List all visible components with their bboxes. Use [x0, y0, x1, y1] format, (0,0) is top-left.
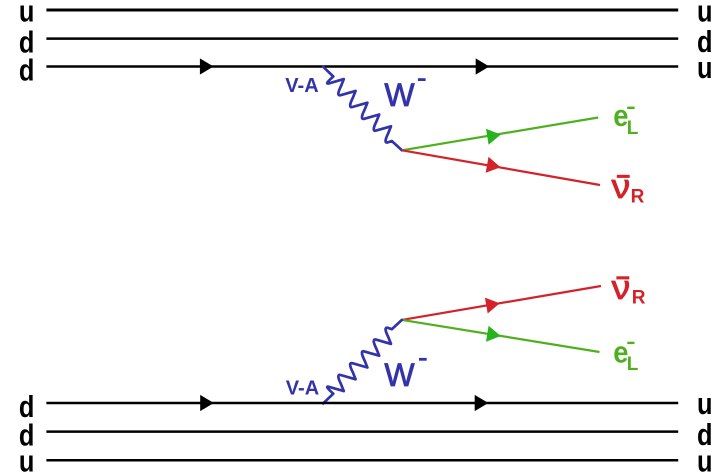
svg-text:V-A: V-A	[285, 75, 318, 97]
quark line u (bottom spectator 3)	[46, 459, 678, 462]
label u right top row1	[697, 0, 713, 29]
label u right bottom row1	[697, 387, 713, 422]
svg-text:u: u	[697, 444, 713, 475]
electron line (bottom, green)	[402, 320, 600, 352]
label d left top row3	[19, 53, 35, 88]
svg-text:V-A: V-A	[286, 377, 319, 399]
svg-text:W: W	[384, 77, 415, 113]
antineutrino line (top, red)	[402, 150, 600, 185]
superscript minus of W (bottom)	[419, 358, 427, 361]
arrow on top quark line (left)	[200, 58, 214, 74]
arrow on bottom quark line (left)	[200, 395, 214, 411]
arrow on bottom quark line (right)	[475, 395, 489, 411]
label d left top row2	[19, 25, 35, 60]
W boson wavy line (top)	[323, 67, 402, 151]
arrow on bottom antineutrino line	[485, 298, 500, 314]
label u right bottom row3	[697, 444, 713, 475]
svg-text:ν: ν	[612, 168, 631, 206]
quark line d (top spectator 2)	[46, 37, 678, 40]
svg-text:L: L	[627, 354, 639, 375]
svg-text:ν: ν	[612, 269, 631, 307]
arrow on top electron line	[486, 129, 501, 145]
superscript minus of e (bottom)	[627, 342, 634, 344]
label d right top row2	[697, 25, 713, 60]
svg-text:u: u	[697, 50, 713, 85]
label W (bottom)	[384, 357, 415, 393]
arrow on top antineutrino line	[486, 157, 501, 173]
arrow on top quark line (right)	[476, 58, 490, 74]
label nu (bottom)	[612, 269, 631, 307]
label nu (top)	[612, 168, 631, 206]
label u right top row3	[697, 50, 713, 85]
svg-text:d: d	[19, 53, 35, 88]
antineutrino line (bottom, red)	[402, 286, 601, 320]
label W (top)	[384, 77, 415, 113]
W boson wavy line (bottom)	[323, 320, 402, 404]
overbar of nu (bottom)	[616, 276, 629, 279]
label e (top)	[613, 99, 628, 133]
label d right bottom row2	[697, 418, 713, 453]
quark line u (top spectator 1)	[46, 9, 678, 12]
label e (bottom)	[613, 336, 628, 370]
quark line d to u (top, decaying quark)	[46, 65, 678, 68]
electron line (top, green)	[402, 118, 598, 151]
arrow on bottom electron line	[486, 326, 501, 342]
quark line d (bottom spectator 2)	[46, 430, 678, 433]
svg-text:L: L	[627, 118, 639, 139]
overbar of nu (top)	[617, 175, 630, 178]
superscript minus of e (top)	[627, 107, 634, 110]
label u left top row1	[19, 0, 35, 29]
label d left bottom row1	[19, 390, 35, 425]
svg-text:R: R	[632, 287, 646, 308]
label u left bottom row3	[19, 444, 35, 475]
svg-text:u: u	[697, 387, 713, 422]
label d left bottom row2	[19, 418, 35, 453]
quark line d to u (bottom, decaying quark)	[46, 402, 678, 405]
svg-text:u: u	[19, 444, 35, 475]
superscript minus of W (top)	[418, 78, 426, 81]
svg-text:R: R	[631, 187, 645, 208]
svg-text:W: W	[384, 357, 415, 393]
